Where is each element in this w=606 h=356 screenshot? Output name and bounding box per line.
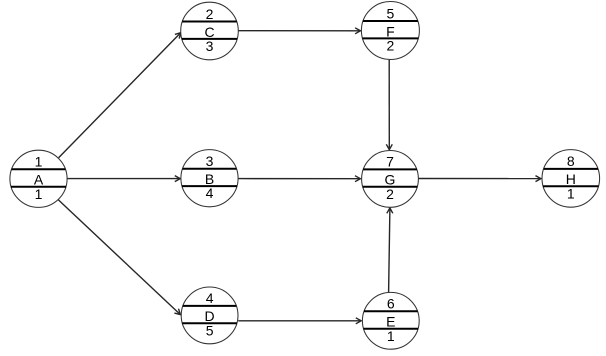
node B top divider (183, 168, 237, 170)
arrow C-F (238, 28, 360, 34)
arrow D-E (238, 318, 361, 324)
arrow A-D (57, 199, 180, 315)
node A bottom divider (11, 186, 66, 188)
node C: circle with rows 2/C/3 (181, 2, 239, 60)
arrow A-C (59, 33, 181, 158)
node G bottom divider (363, 186, 418, 188)
svg-text:5: 5 (387, 5, 395, 21)
node F: circle with rows 5/F/2 (361, 2, 419, 60)
svg-text:7: 7 (386, 154, 394, 170)
node H top divider (544, 168, 598, 170)
node E bottom divider (364, 328, 419, 330)
svg-text:2: 2 (206, 6, 214, 22)
svg-text:2: 2 (387, 38, 395, 54)
node D bottom divider (182, 322, 237, 324)
node H bottom divider (543, 185, 598, 187)
svg-text:3: 3 (206, 153, 214, 169)
svg-text:5: 5 (206, 322, 214, 338)
svg-text:6: 6 (387, 296, 395, 312)
node G top divider (363, 168, 417, 170)
node A top divider (12, 168, 66, 170)
node H: circle with rows 8/H/1 (542, 150, 600, 208)
node C bottom divider (182, 38, 237, 40)
svg-text:1: 1 (387, 328, 395, 344)
svg-text:4: 4 (206, 290, 214, 306)
node F bottom divider (363, 37, 419, 39)
svg-text:2: 2 (386, 186, 394, 202)
svg-text:3: 3 (206, 38, 214, 54)
node C top divider (182, 21, 236, 23)
node D top divider (183, 305, 237, 307)
arrow A-B (67, 176, 180, 182)
arrow B-G (238, 176, 360, 182)
svg-text:1: 1 (567, 185, 575, 201)
svg-text:1: 1 (35, 186, 43, 202)
node E top divider (364, 310, 418, 312)
svg-text:4: 4 (206, 185, 214, 201)
node D: circle with rows 4/D/5 (181, 287, 238, 344)
svg-text:1: 1 (35, 154, 43, 170)
node B bottom divider (182, 185, 237, 187)
arrow E-G (387, 208, 393, 292)
node A: circle with rows 1/A/1 (10, 150, 67, 207)
arrow G-H (419, 176, 541, 182)
svg-text:8: 8 (567, 153, 575, 169)
node B: circle with rows 3/B/4 (181, 150, 238, 207)
node E: circle with rows 6/E/1 (362, 292, 419, 349)
node G: circle with rows 7/G/2 (362, 151, 419, 208)
node F top divider (363, 20, 418, 22)
arrow F-G (386, 60, 392, 150)
